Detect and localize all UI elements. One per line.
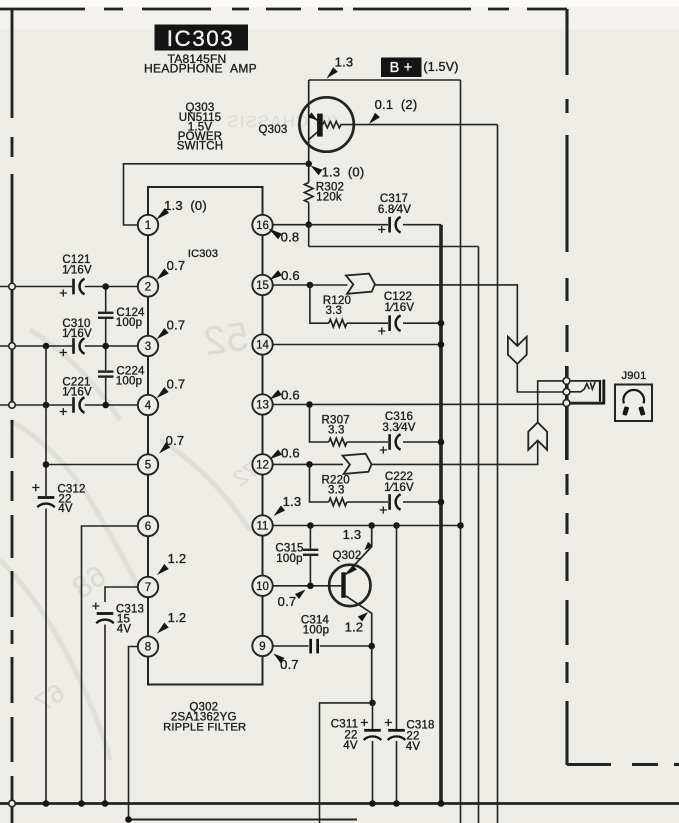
wire pin15 to headphone jack [375, 285, 517, 346]
pin 1 [138, 215, 158, 235]
wire left rail row C121 [0, 286, 72, 288]
node jack contact 2 [563, 388, 570, 395]
resistor R302 [304, 183, 313, 203]
wire pin14 to thick bus [273, 344, 441, 346]
svg-text:J901: J901 [621, 370, 646, 382]
jack switch contact zigzag [570, 384, 589, 392]
wire pin13 to jack sleeve [273, 403, 567, 405]
svg-text:14: 14 [256, 340, 269, 352]
svg-text:+: + [379, 442, 387, 458]
border: left dashed line [11, 9, 14, 118]
svg-text:1⁄16V: 1⁄16V [62, 386, 92, 398]
svg-text:4V: 4V [406, 741, 421, 753]
junction collector/C311 [369, 700, 376, 707]
capacitor C316 [388, 434, 391, 450]
wire pin11 rail to C318 [396, 526, 398, 730]
svg-text:3.3⁄4V: 3.3⁄4V [382, 422, 415, 434]
svg-text:6.8⁄4V: 6.8⁄4V [378, 204, 411, 216]
svg-text:11: 11 [257, 521, 269, 533]
pin 6 [138, 516, 158, 536]
node jack contact 3 [563, 400, 570, 407]
headphone icon [623, 390, 644, 403]
junction pin8 wire/second bus [125, 816, 132, 823]
svg-text:4V: 4V [117, 624, 132, 636]
svg-text:+: + [378, 221, 386, 237]
junction pin16 node [305, 221, 312, 228]
Q302 emitter arrow (PNP) [347, 565, 357, 575]
pin 5 [138, 454, 158, 474]
pin 11 [252, 515, 272, 535]
border: top dashed line [0, 8, 85, 11]
svg-text:1.3 (0): 1.3 (0) [322, 165, 365, 180]
svg-text:1.2: 1.2 [345, 620, 364, 635]
junction at ground bus [369, 800, 376, 807]
svg-text:+: + [32, 479, 40, 495]
svg-text:0.6: 0.6 [281, 268, 300, 283]
node left border row C310 [9, 343, 16, 350]
svg-text:2: 2 [145, 282, 151, 294]
transistor Q303 [299, 97, 353, 151]
wire pin15 out [273, 284, 348, 286]
resistor R120 [329, 319, 347, 327]
svg-text:1.3: 1.3 [335, 55, 354, 70]
svg-text:0.7: 0.7 [167, 258, 186, 273]
svg-text:6: 6 [145, 521, 151, 533]
junction C316/thick bus [438, 439, 445, 446]
svg-text:RIPPLE FILTER: RIPPLE FILTER [163, 721, 246, 733]
wire jack ring to chevron [538, 381, 567, 423]
junction at ground bus [393, 800, 400, 807]
svg-text:1⁄16V: 1⁄16V [62, 328, 92, 340]
wire to R220 [310, 464, 329, 502]
border: right line solid segment at jack [565, 366, 569, 460]
svg-text:0.1 (2): 0.1 (2) [375, 97, 418, 112]
svg-text:1.3: 1.3 [343, 527, 362, 542]
capacitor C121 [72, 279, 75, 295]
Q303 emitter arrow (PNP) [308, 112, 317, 120]
svg-text:100p: 100p [116, 376, 142, 388]
pin 8 [138, 636, 158, 656]
pin 14 [252, 334, 272, 354]
chevron connector (pin12) [343, 454, 372, 474]
wire pin9 to C314 [273, 645, 309, 647]
junction row2/filter line [43, 343, 50, 350]
svg-text:0.8: 0.8 [281, 230, 300, 245]
svg-text:0.7: 0.7 [278, 594, 297, 609]
svg-text:1: 1 [145, 220, 151, 232]
thick bus wire (filtered rail) [439, 225, 443, 804]
svg-text:+: + [59, 285, 67, 301]
wire to jack tip contact [517, 364, 566, 392]
wire C313 to ground bus [104, 625, 106, 804]
svg-text:100p: 100p [116, 317, 142, 329]
wire C312 to ground bus [45, 509, 47, 804]
pin 12 [252, 454, 272, 474]
svg-text:100p: 100p [276, 553, 302, 565]
svg-text:16: 16 [256, 220, 269, 232]
wire pin11 rail [273, 525, 461, 527]
border: bottom-right dashed line [567, 763, 611, 766]
wire B+ vertical feed [460, 80, 462, 823]
wire pin16 node lower branch [309, 246, 479, 248]
svg-text:100p: 100p [303, 625, 329, 637]
svg-text:12: 12 [256, 460, 269, 472]
Q302 emitter lead [346, 526, 372, 575]
capacitor C317 [388, 217, 391, 233]
svg-text:0.7: 0.7 [167, 318, 186, 333]
svg-text:8: 8 [145, 642, 151, 654]
pin 13 [252, 394, 272, 414]
junction pin5 wire [43, 461, 50, 468]
capacitor C313 [97, 612, 114, 615]
svg-text:0.6: 0.6 [281, 445, 300, 460]
svg-text:B +: B + [390, 60, 413, 76]
resistor R307 [329, 438, 347, 446]
wire C317 to thick bus [403, 224, 441, 226]
pin 4 [138, 395, 158, 415]
junction at ground bus [102, 800, 109, 807]
jack plug plates [599, 380, 601, 402]
node jack contact 1 [563, 378, 570, 385]
capacitor C221 [72, 397, 75, 413]
junction C222/thick bus [438, 499, 445, 506]
wire pin12 out [273, 463, 343, 465]
svg-text:4V: 4V [343, 740, 358, 752]
node border/ground bus [9, 800, 16, 807]
svg-text:Q302: Q302 [333, 550, 362, 562]
svg-text:9: 9 [259, 641, 265, 653]
svg-text:+: + [360, 714, 368, 730]
pin 10 [252, 576, 272, 596]
wire Q303 base to right [354, 124, 498, 126]
svg-text:Q303: Q303 [259, 124, 288, 136]
wire ground bus [0, 802, 679, 805]
wire left rail row C310 [0, 345, 72, 347]
wire pin16 net vertical [478, 247, 480, 823]
svg-text:+: + [379, 502, 387, 518]
svg-text:+: + [92, 598, 100, 614]
capacitor C311 [364, 729, 381, 732]
svg-text:1.2: 1.2 [168, 610, 187, 625]
wire second bottom bus [129, 819, 358, 821]
capacitor C312 [38, 496, 55, 499]
svg-text:+: + [378, 323, 386, 339]
wire pin12 to headphone jack [371, 441, 537, 465]
resistor R220 [329, 498, 347, 506]
capacitor C310 [72, 338, 75, 354]
svg-text:120k: 120k [316, 192, 342, 204]
wire pin7 to C313 [105, 587, 138, 602]
pin 7 [138, 577, 158, 597]
svg-text:3.3: 3.3 [326, 305, 343, 317]
svg-text:1⁄16V: 1⁄16V [385, 302, 415, 314]
transistor Q302 [329, 565, 370, 606]
junction thick bus/ground [438, 800, 445, 807]
chevron connector down (to jack) [508, 337, 527, 364]
wire B+ top rail [309, 79, 461, 81]
svg-text:3: 3 [145, 341, 151, 353]
wire pin6 to ground bus [82, 526, 138, 804]
capacitor C224 [105, 346, 107, 370]
pin 2 [138, 276, 158, 296]
wire C311 branch down [320, 703, 373, 823]
svg-text:0.6: 0.6 [281, 388, 300, 403]
svg-text:IC303: IC303 [167, 26, 235, 51]
svg-text:4V: 4V [58, 503, 73, 515]
junction at ground bus [43, 800, 50, 807]
svg-text:(1.5V): (1.5V) [423, 60, 458, 74]
chevron connector up (from pin12) [528, 422, 547, 449]
wire to R120 [310, 285, 329, 323]
B+ supply box [381, 58, 422, 78]
svg-text:3.3: 3.3 [328, 424, 345, 436]
junction pin14/thick bus [438, 341, 445, 348]
svg-text:1.3: 1.3 [283, 494, 302, 509]
capacitor C314 [309, 639, 312, 654]
svg-text:0.7: 0.7 [167, 377, 186, 392]
svg-text:1.3 (0): 1.3 (0) [164, 198, 207, 213]
wire Q303 base output vertical [497, 125, 499, 823]
svg-text:1⁄16V: 1⁄16V [384, 482, 414, 494]
svg-text:+: + [59, 344, 67, 360]
wire left rail row C221 [0, 404, 72, 406]
pin 9 [252, 636, 272, 656]
wire pin1 to collector node [124, 164, 309, 225]
junction row3/filter line [43, 402, 50, 409]
svg-text:10: 10 [256, 581, 269, 593]
svg-text:+: + [384, 714, 392, 730]
wire pin16 to C317 [273, 224, 388, 226]
wire R302 to pin16 node [308, 203, 310, 247]
Q302 collector lead [346, 596, 372, 703]
svg-text:1⁄16V: 1⁄16V [62, 264, 92, 276]
svg-text:15: 15 [256, 280, 269, 292]
junction C314/collector [368, 643, 375, 650]
pin 16 [252, 215, 272, 235]
op-amp IC303 body outline [148, 187, 263, 685]
svg-text:IC303: IC303 [188, 248, 218, 260]
svg-text:13: 13 [256, 400, 269, 412]
svg-text:7: 7 [145, 582, 151, 594]
Q303 internal base resistor [323, 121, 354, 128]
svg-text:5: 5 [145, 460, 151, 472]
capacitor C315 [309, 526, 311, 549]
junction at ground bus [78, 800, 85, 807]
capacitor C122 [388, 315, 391, 331]
junction collector/pin1 node [305, 161, 312, 168]
junction C122/thick bus [438, 320, 445, 327]
svg-text:1.2: 1.2 [168, 551, 187, 566]
node left border row C221 [9, 402, 16, 409]
pin 3 [138, 336, 158, 356]
border: right dashed line [565, 9, 568, 75]
wire to R307 [310, 405, 329, 443]
pin 15 [252, 275, 272, 295]
node left border row C121 [9, 283, 16, 290]
svg-text:3.3: 3.3 [328, 484, 345, 496]
wire pin5 to filter line [46, 464, 138, 466]
capacitor C124 [105, 287, 107, 312]
capacitor C318 [388, 729, 405, 732]
wire pin10 to Q302 base [273, 585, 342, 587]
svg-text:+: + [59, 403, 67, 419]
svg-text:52: 52 [201, 314, 251, 364]
wire pin8 down [129, 647, 138, 820]
svg-text:SWITCH: SWITCH [177, 141, 224, 153]
wire filter line down to C312 [45, 346, 47, 496]
svg-text:4: 4 [145, 400, 152, 412]
chevron connector (pin15) [346, 274, 375, 294]
capacitor C222 [388, 494, 391, 510]
IC303 title box [155, 25, 249, 51]
junction pin11/B+ feed [457, 522, 464, 529]
svg-text:HEADPHONE AMP: HEADPHONE AMP [144, 62, 257, 76]
wire to C311 [372, 703, 374, 729]
wire Q303 emitter/collector vertical [308, 80, 310, 183]
